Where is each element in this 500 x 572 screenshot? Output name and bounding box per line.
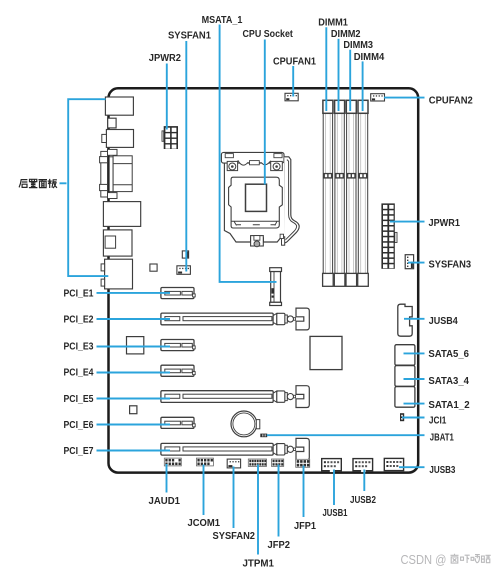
- battery BT1: [231, 411, 260, 437]
- chipset: [310, 336, 342, 369]
- wire DIMM4: [362, 61, 364, 111]
- svg-text:DIMM1: DIMM1: [318, 18, 348, 29]
- header JAUD1: [164, 458, 181, 466]
- svg-text:JCOM1: JCOM1: [188, 518, 221, 529]
- watermark Chinese glyphs: [451, 554, 491, 563]
- connector SYSFAN3: [405, 255, 413, 269]
- wire SYSFAN1: [185, 41, 187, 272]
- wire PCI_E5: [97, 398, 171, 400]
- rear panel LAN+USB block: [103, 202, 140, 227]
- svg-text:JPWR1: JPWR1: [429, 218, 461, 229]
- connector CPUFAN2: [371, 94, 385, 101]
- socket die window: [246, 184, 267, 211]
- wire JTPM1: [257, 465, 259, 555]
- wire PCI_E2: [97, 318, 171, 320]
- svg-text:JUSB2: JUSB2: [350, 495, 376, 506]
- socket screw right: [273, 163, 280, 170]
- wire rear panel dash: [60, 182, 67, 184]
- connector JCI1: [400, 413, 404, 421]
- slot PCI_E7 (x16): [161, 438, 309, 460]
- svg-text:JBAT1: JBAT1: [430, 433, 454, 444]
- DIMM slot 1: [323, 100, 334, 286]
- jumper JBAT1: [260, 434, 267, 438]
- slot PCI_E3 (x1): [161, 340, 195, 351]
- svg-text:PCI_E3: PCI_E3: [64, 342, 94, 353]
- svg-text:JTPM1: JTPM1: [243, 558, 275, 569]
- svg-text:CPUFAN1: CPUFAN1: [273, 56, 316, 67]
- label rear panel (Chinese characters drawn as strokes): [19, 179, 57, 188]
- wire JBAT1: [267, 434, 425, 436]
- wire DIMM1: [325, 27, 327, 111]
- DIMM slot 3: [346, 100, 357, 286]
- slot PCI_E2 (x16): [161, 308, 309, 330]
- wire JUSB2: [363, 470, 365, 492]
- small chip near PCI_E6: [130, 406, 137, 414]
- slot PCI_E1 (x1): [161, 288, 195, 299]
- wire SYSFAN3: [408, 262, 425, 264]
- socket bottom tab: [251, 236, 264, 246]
- rear panel USB block with port window: [103, 230, 132, 256]
- socket screw left: [229, 163, 236, 170]
- slot PCI_E5 (x16): [161, 386, 309, 408]
- svg-text:SYSFAN1: SYSFAN1: [168, 30, 211, 41]
- wire JUSB4: [404, 318, 425, 320]
- glyph ban: [48, 179, 57, 188]
- svg-text:PCI_E5: PCI_E5: [64, 394, 94, 405]
- svg-text:PCI_E7: PCI_E7: [64, 446, 94, 457]
- rear panel PS/2+USB block: [105, 97, 133, 115]
- socket screw housings: [227, 161, 237, 170]
- connector CPUFAN1: [285, 93, 298, 101]
- svg-text:CSDN @: CSDN @: [401, 552, 447, 567]
- rear panel small square port: [108, 118, 116, 128]
- svg-text:DIMM3: DIMM3: [343, 40, 373, 51]
- chip near PCI_E3: [127, 337, 144, 354]
- socket cam wave: [238, 160, 271, 165]
- callout wires (blue): [60, 25, 425, 555]
- CPU socket U1: [221, 152, 299, 246]
- svg-text:JPWR2: JPWR2: [149, 53, 182, 64]
- wire JPWR1: [390, 221, 425, 223]
- wire JFP1: [303, 466, 305, 518]
- connector MSATA_1: [270, 268, 282, 306]
- svg-text:JUSB3: JUSB3: [429, 465, 455, 476]
- svg-text:SYSFAN2: SYSFAN2: [213, 531, 256, 542]
- svg-text:PCI_E4: PCI_E4: [64, 368, 94, 379]
- DIMM slot 2: [334, 100, 345, 286]
- wire DIMM3: [349, 50, 351, 111]
- header JUSB1: [322, 459, 342, 472]
- svg-text:JUSB1: JUSB1: [323, 508, 348, 519]
- wire JCI1: [402, 417, 425, 419]
- wire CPUFAN1: [292, 66, 294, 97]
- board outline: [109, 88, 419, 472]
- svg-text:SYSFAN3: SYSFAN3: [429, 259, 472, 270]
- svg-text:DIMM2: DIMM2: [331, 29, 361, 40]
- glyph hou: [19, 180, 27, 188]
- svg-text:PCI_E6: PCI_E6: [64, 420, 94, 431]
- wire JAUD1: [166, 464, 168, 493]
- DIMM slot 4: [358, 100, 369, 286]
- wire CPU Socket: [264, 40, 266, 185]
- header JUSB3: [384, 458, 403, 470]
- wire JUSB1: [333, 470, 335, 506]
- wire SATA1_2: [404, 403, 425, 405]
- connector SYSFAN1: [177, 266, 191, 275]
- rear panel HDMI port: [102, 130, 134, 148]
- connector JPWR1 (24-pin ATX): [381, 203, 397, 268]
- header JUSB2: [353, 459, 373, 472]
- connector SATA1_2: [395, 387, 415, 408]
- svg-text:JFP1: JFP1: [294, 521, 316, 532]
- header JFP1: [296, 459, 310, 467]
- header JFP2: [272, 459, 284, 466]
- svg-text:DIMM4: DIMM4: [354, 52, 385, 63]
- wire JPWR2: [166, 64, 168, 130]
- wire SATA3_4: [404, 378, 425, 380]
- wire JUSB3: [399, 466, 425, 468]
- connector JUSB4: [398, 304, 412, 336]
- svg-text:PCI_E2: PCI_E2: [64, 315, 94, 326]
- svg-text:JCI1: JCI1: [429, 415, 447, 426]
- glyph mian: [39, 180, 48, 188]
- connector SATA5_6: [395, 345, 415, 366]
- wire SYSFAN2: [233, 467, 235, 529]
- socket lever: [284, 157, 299, 243]
- wire JCOM1: [203, 465, 205, 516]
- socket top bar: [221, 152, 284, 163]
- svg-text:JAUD1: JAUD1: [149, 496, 181, 507]
- header JTPM1: [248, 459, 266, 466]
- wire PCI_E7: [97, 450, 171, 452]
- wire CPUFAN2: [384, 97, 425, 99]
- svg-text:CPUFAN2: CPUFAN2: [429, 96, 473, 107]
- small chip below socket: [150, 264, 157, 271]
- slot PCI_E6 (x1): [161, 417, 195, 428]
- glyph zhi: [29, 179, 38, 187]
- socket load plate: [229, 177, 283, 228]
- svg-text:PCI_E1: PCI_E1: [64, 289, 94, 300]
- wire DIMM2: [338, 39, 340, 111]
- rear panel audio jacks block: [101, 259, 132, 289]
- wire PCI_E3: [97, 346, 171, 348]
- socket outer plate: [224, 158, 284, 242]
- header JCOM1: [196, 458, 213, 466]
- header above SYSFAN1: [182, 251, 188, 258]
- rear panel VGA port: [100, 149, 133, 198]
- connector SYSFAN2: [227, 459, 240, 468]
- svg-text:SATA1_2: SATA1_2: [428, 400, 470, 411]
- svg-text:SATA5_6: SATA5_6: [428, 349, 469, 360]
- connector SATA3_4: [395, 366, 415, 387]
- wire MSATA_1: [220, 25, 277, 282]
- connector JPWR2 (8-pin): [162, 126, 178, 149]
- wire JFP2: [278, 465, 280, 537]
- wire SATA5_6: [404, 352, 425, 354]
- socket bottom band: [232, 221, 280, 225]
- svg-text:CPU Socket: CPU Socket: [243, 29, 294, 40]
- slot PCI_E4 (x1): [161, 365, 195, 376]
- svg-text:JFP2: JFP2: [268, 540, 291, 551]
- svg-text:SATA3_4: SATA3_4: [428, 376, 469, 387]
- svg-text:JUSB4: JUSB4: [429, 316, 458, 327]
- wire PCI_E1: [97, 292, 171, 294]
- wire rear panel bracket: [68, 99, 108, 276]
- wire PCI_E4: [97, 372, 171, 374]
- wire PCI_E6: [97, 424, 171, 426]
- svg-text:MSATA_1: MSATA_1: [202, 15, 243, 26]
